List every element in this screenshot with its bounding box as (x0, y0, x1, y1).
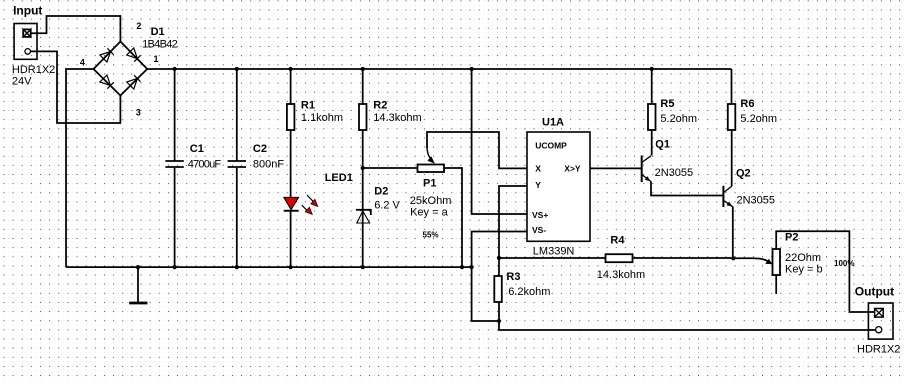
svg-text:C1: C1 (190, 143, 204, 155)
svg-text:U1A: U1A (542, 117, 564, 129)
svg-text:4: 4 (80, 58, 85, 68)
svg-text:UCOMP: UCOMP (535, 141, 567, 151)
svg-text:2N3055: 2N3055 (655, 167, 694, 179)
svg-text:5.2ohm: 5.2ohm (740, 113, 777, 125)
svg-text:6.2kohm: 6.2kohm (508, 286, 550, 298)
svg-text:800nF: 800nF (253, 159, 284, 171)
svg-text:D2: D2 (374, 186, 388, 198)
svg-text:HDR1X2: HDR1X2 (12, 64, 55, 76)
svg-text:14.3kohm: 14.3kohm (597, 269, 645, 281)
svg-text:R6: R6 (740, 98, 754, 110)
svg-text:4700uF: 4700uF (188, 159, 222, 171)
svg-text:22Ohm: 22Ohm (785, 252, 821, 264)
svg-text:100%: 100% (834, 259, 854, 268)
svg-text:VS-: VS- (532, 225, 546, 235)
svg-text:VS+: VS+ (532, 210, 548, 220)
svg-text:1: 1 (154, 54, 159, 64)
svg-text:5.2ohm: 5.2ohm (660, 113, 697, 125)
svg-text:X: X (535, 164, 541, 174)
svg-text:1.1kohm: 1.1kohm (301, 112, 343, 124)
svg-text:C2: C2 (253, 143, 267, 155)
svg-text:P1: P1 (423, 178, 436, 190)
svg-text:R2: R2 (373, 100, 387, 112)
svg-text:R1: R1 (301, 100, 315, 112)
svg-text:R3: R3 (506, 271, 520, 283)
svg-text:LED1: LED1 (325, 172, 353, 184)
svg-text:14.3kohm: 14.3kohm (373, 112, 421, 124)
svg-text:Input: Input (13, 4, 42, 18)
svg-text:P2: P2 (785, 232, 798, 244)
svg-text:Key = a: Key = a (410, 207, 448, 219)
svg-text:2N3055: 2N3055 (737, 195, 776, 207)
svg-text:55%: 55% (423, 231, 439, 240)
svg-text:24V: 24V (12, 76, 32, 88)
svg-text:LM339N: LM339N (533, 246, 575, 258)
svg-text:6.2 V: 6.2 V (374, 200, 400, 212)
svg-text:2: 2 (136, 21, 141, 31)
svg-text:D1: D1 (151, 26, 165, 38)
svg-text:25kOhm: 25kOhm (410, 195, 452, 207)
svg-text:Q1: Q1 (655, 139, 670, 151)
svg-text:Y: Y (535, 180, 541, 190)
svg-text:Key = b: Key = b (785, 264, 823, 276)
svg-text:Output: Output (855, 285, 894, 299)
svg-text:3: 3 (136, 108, 141, 118)
svg-text:R4: R4 (610, 235, 625, 247)
svg-text:HDR1X2: HDR1X2 (857, 344, 900, 356)
svg-text:R5: R5 (660, 98, 674, 110)
svg-text:1B4B42: 1B4B42 (142, 39, 178, 51)
svg-text:Q2: Q2 (736, 168, 751, 180)
svg-text:X>Y: X>Y (564, 164, 581, 174)
